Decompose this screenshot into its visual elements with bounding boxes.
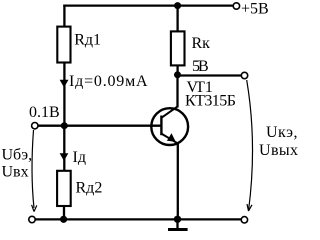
arrowhead of output bracket <box>247 204 252 211</box>
terminal input common (bottom-left) <box>29 216 35 222</box>
svg-text:Rд1: Rд1 <box>74 32 101 49</box>
wire Rк to collector node <box>176 66 178 76</box>
ground stub <box>176 219 178 229</box>
wire Rд1 to base node <box>63 63 65 127</box>
terminal input (top-left) <box>32 123 38 129</box>
svg-text:0.1В: 0.1В <box>29 104 60 121</box>
wire bottom rail <box>35 218 241 220</box>
output bracket curve (Uкэ/Uвых arrow) <box>247 80 253 210</box>
wire emitter lead down <box>177 144 179 220</box>
resistor Rд2 <box>57 171 71 206</box>
node top supply junction <box>174 2 181 9</box>
terminal +5V <box>233 3 239 9</box>
transistor emitter inner lead <box>161 134 178 144</box>
node base junction <box>61 122 68 129</box>
svg-text:Rд2: Rд2 <box>76 179 103 196</box>
svg-text:5В: 5В <box>192 58 208 75</box>
wire base node to Rд2 <box>63 126 65 171</box>
svg-text:Uкэ,: Uкэ, <box>266 124 298 141</box>
wire collector node to output terminal <box>178 74 242 76</box>
wire left vertical top <box>63 5 65 28</box>
node bottom-left junction <box>60 216 67 223</box>
terminal output (top-right) <box>241 72 247 78</box>
emitter arrow (NPN) <box>167 133 176 142</box>
wire right vertical top <box>176 5 178 32</box>
transistor base bar <box>160 116 162 136</box>
input bracket curve (Uбэ/Uвх arrow) <box>32 130 34 208</box>
resistor Rд1 <box>57 27 70 63</box>
terminal output common (bottom-right) <box>241 217 247 223</box>
arrowhead of input bracket <box>32 205 37 212</box>
transistor VT1 body circle <box>151 108 188 145</box>
svg-text:Iд: Iд <box>73 149 86 166</box>
svg-text:+5В: +5В <box>241 0 269 17</box>
node emitter-ground junction <box>174 216 181 223</box>
svg-text:КТ315Б: КТ315Б <box>185 93 236 110</box>
svg-text:Uбэ,: Uбэ, <box>2 146 33 163</box>
node collector junction <box>174 71 181 78</box>
wire base rail <box>38 125 162 127</box>
wire top rail <box>63 4 232 6</box>
resistor Rк <box>171 31 185 65</box>
wire collector lead <box>176 75 178 108</box>
ground bar <box>168 228 188 231</box>
svg-text:Rк: Rк <box>192 35 211 52</box>
wire Rд2 to bottom rail <box>63 206 65 219</box>
transistor collector inner lead <box>161 107 177 118</box>
svg-text:Uвых: Uвых <box>259 142 298 159</box>
current arrow Iд (divider current) <box>60 80 69 88</box>
current arrow Iд (into Rд2) <box>60 153 69 161</box>
svg-text:Iд=0.09мА: Iд=0.09мА <box>69 73 148 90</box>
svg-text:Uвх: Uвх <box>2 164 29 181</box>
